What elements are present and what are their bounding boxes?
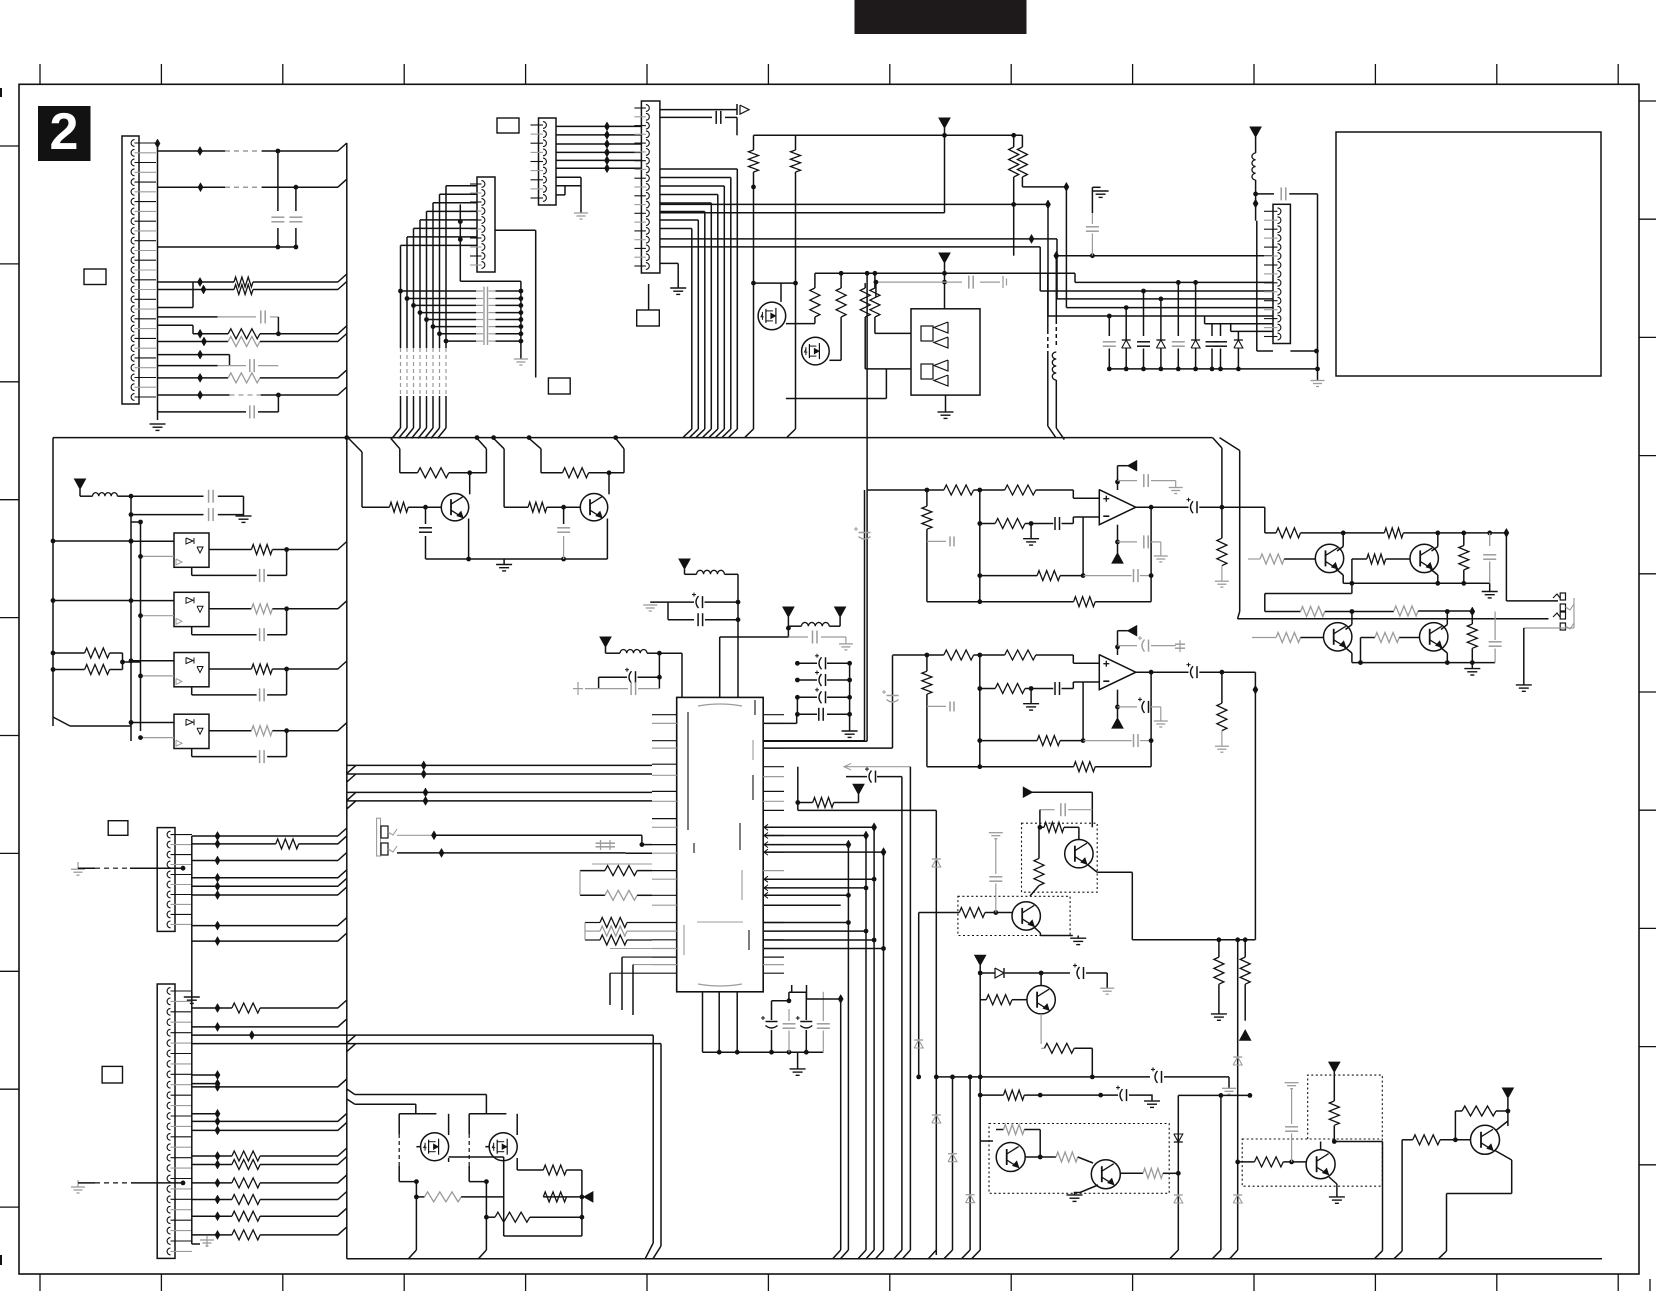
svg-text:2: 2	[50, 103, 79, 161]
